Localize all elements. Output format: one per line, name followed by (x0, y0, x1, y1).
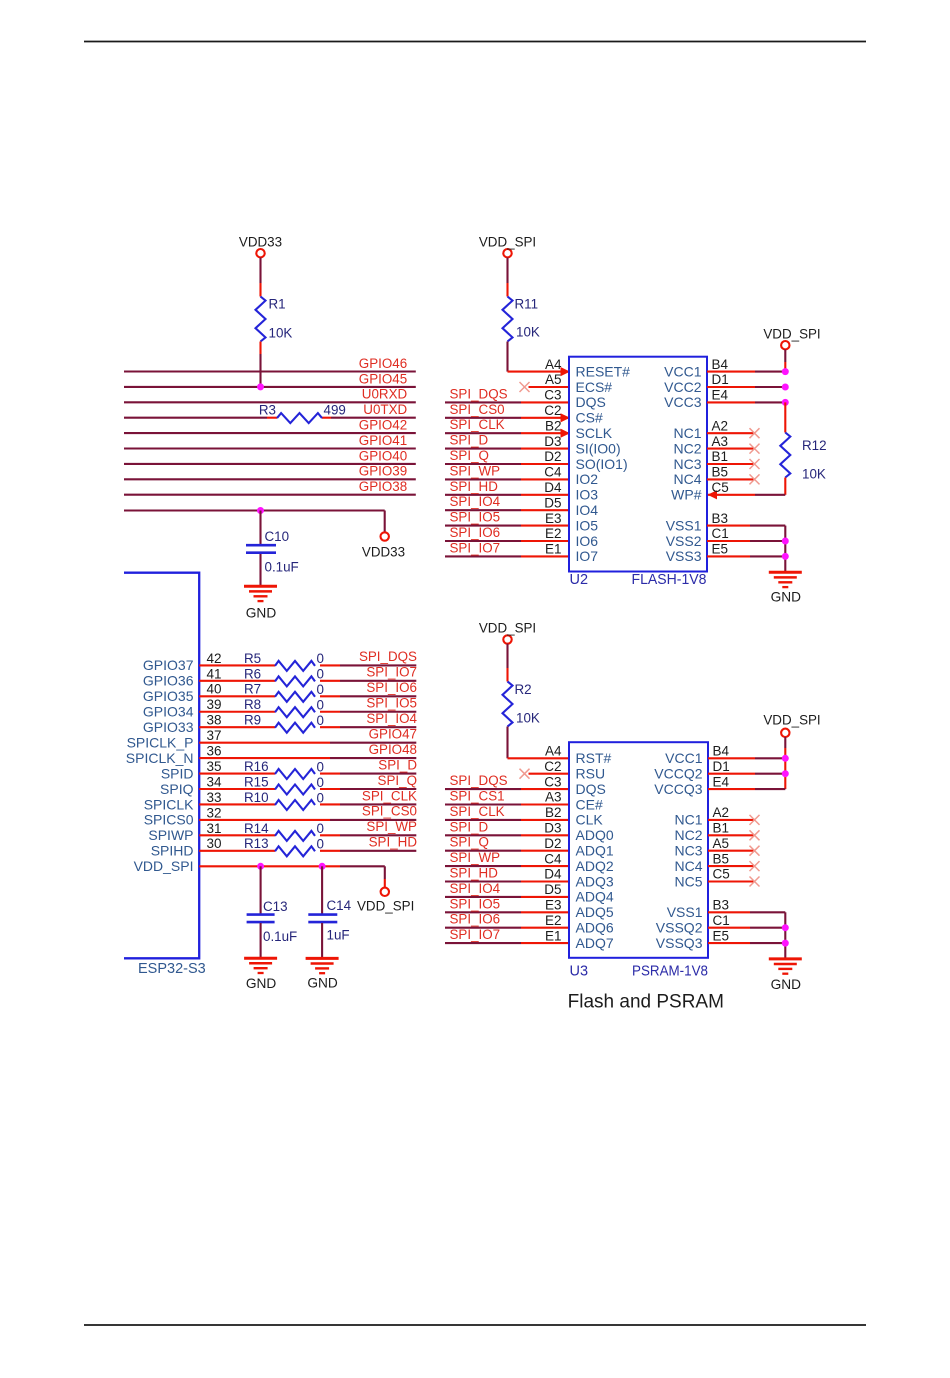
svg-text:SPI_DQS: SPI_DQS (450, 773, 508, 788)
svg-text:SPICLK: SPICLK (144, 796, 194, 812)
svg-text:VDD_SPI: VDD_SPI (134, 858, 194, 874)
svg-text:SPI_CS0: SPI_CS0 (450, 402, 505, 417)
wire pin E2 (ADQ6) (445, 927, 569, 929)
svg-text:D3: D3 (544, 434, 561, 449)
svg-text:SPI_D: SPI_D (450, 819, 489, 834)
svg-text:0: 0 (317, 775, 324, 790)
svg-text:ADQ7: ADQ7 (576, 935, 614, 951)
junction U3 VSSQ3 (782, 940, 789, 947)
svg-text:0: 0 (317, 790, 324, 805)
resistor R9 (244, 713, 324, 733)
svg-text:38: 38 (207, 713, 222, 728)
svg-text:C5: C5 (712, 480, 729, 495)
wire VCC pin B4 (708, 757, 785, 759)
svg-text:VCCQ3: VCCQ3 (654, 781, 702, 797)
no-connect X pin A2 (750, 815, 760, 825)
svg-text:R5: R5 (244, 651, 261, 666)
svg-text:VDD_SPI: VDD_SPI (763, 713, 820, 728)
wire GPIO38 (124, 494, 416, 496)
wire R2 to RST# (508, 727, 570, 759)
svg-text:D4: D4 (544, 867, 562, 882)
svg-text:E4: E4 (712, 388, 729, 403)
svg-text:GPIO34: GPIO34 (143, 704, 194, 720)
svg-text:SPI_IO4: SPI_IO4 (450, 494, 501, 509)
wire pin 35 to R16 (199, 772, 275, 774)
svg-text:0: 0 (317, 682, 324, 697)
svg-text:36: 36 (207, 744, 222, 759)
svg-text:U3: U3 (570, 964, 589, 980)
svg-text:B3: B3 (712, 511, 729, 526)
svg-text:VDD_SPI: VDD_SPI (479, 234, 536, 249)
svg-text:GPIO33: GPIO33 (143, 719, 194, 735)
svg-text:GPIO39: GPIO39 (359, 464, 407, 479)
wire pin C3 (DQS) (445, 401, 569, 403)
svg-text:SPI_CLK: SPI_CLK (362, 788, 417, 803)
no-connect X pin A5 (520, 382, 530, 392)
svg-text:D3: D3 (544, 821, 561, 836)
resistor R11 (503, 297, 540, 342)
wire VSS pin B3 (707, 525, 785, 527)
svg-text:SPI_WP: SPI_WP (450, 850, 501, 865)
wire pin D4 (IO3) (445, 494, 569, 496)
resistor R15 (244, 774, 324, 794)
arrow into RESET# pin A4 (561, 367, 571, 376)
wire VSS pin E5 (707, 555, 785, 557)
power VDD_SPI (U2 VCC) (763, 326, 820, 349)
svg-text:0.1uF: 0.1uF (265, 560, 299, 575)
wire pin 33 to R10 (199, 803, 275, 805)
junction U3 VCCQ2 (782, 770, 789, 777)
svg-text:B5: B5 (713, 851, 730, 866)
svg-text:SPI_IO5: SPI_IO5 (366, 696, 417, 711)
no-connect X pin A3 (750, 444, 760, 454)
IC U3 PSRAM-1V8 (569, 742, 708, 979)
wire pin E3 (ADQ5) (445, 911, 569, 913)
wire pin C2 (CS#) (445, 417, 569, 419)
wire R6 to SPI_IO7 (320, 680, 416, 682)
svg-text:R2: R2 (515, 682, 532, 697)
svg-text:35: 35 (207, 759, 222, 774)
svg-text:GND: GND (771, 590, 802, 605)
svg-text:SPICS0: SPICS0 (144, 812, 194, 828)
power VDD_SPI (R2) (479, 621, 536, 644)
svg-text:33: 33 (207, 790, 222, 805)
junction VSS3 (782, 553, 789, 560)
svg-text:E2: E2 (545, 526, 562, 541)
svg-text:SPI_IO4: SPI_IO4 (366, 711, 417, 726)
svg-text:B4: B4 (712, 357, 729, 372)
wire GPIO42 (124, 432, 416, 434)
no-connect X pin A2 (750, 428, 760, 438)
wire NC pin C5 (708, 880, 755, 882)
power VDD33 right (362, 532, 405, 559)
svg-text:CE#: CE# (576, 796, 603, 812)
svg-text:VCC1: VCC1 (665, 750, 703, 766)
svg-text:VCC1: VCC1 (664, 363, 702, 379)
resistor R6 (244, 666, 324, 686)
svg-text:R3: R3 (259, 403, 276, 418)
svg-text:U0RXD: U0RXD (362, 387, 408, 402)
wire pin E2 (IO6) (445, 540, 569, 542)
wire R8 to SPI_IO5 (320, 711, 416, 713)
wire pin B2 (CLK) (445, 819, 569, 821)
wire VDD_SPI down to VCC rail (784, 737, 786, 789)
svg-text:D4: D4 (544, 480, 562, 495)
svg-text:GPIO46: GPIO46 (359, 356, 407, 371)
capacitor C10 (246, 511, 299, 587)
wire R1 to GPIO45 net (259, 342, 261, 388)
svg-text:C4: C4 (544, 465, 562, 480)
wire pin 31 to R14 (199, 834, 275, 836)
svg-text:E1: E1 (545, 928, 562, 943)
wire pin 29 VDD_SPI rail (199, 866, 385, 887)
svg-text:R11: R11 (515, 297, 539, 312)
svg-text:RST#: RST# (576, 750, 612, 766)
svg-text:C14: C14 (327, 898, 352, 913)
wire pin 34 to R15 (199, 788, 275, 790)
arrow into SCLK pin B2 (561, 429, 571, 438)
wire GPIO40 (124, 463, 416, 465)
wire NC pin B1 (708, 834, 755, 836)
svg-text:31: 31 (207, 821, 222, 836)
wire VDD_SPI down to VCC rail (784, 349, 786, 371)
power VDD_SPI (R11) (479, 234, 536, 257)
svg-text:10K: 10K (516, 711, 540, 726)
svg-text:SPIHD: SPIHD (151, 843, 194, 859)
svg-text:GND: GND (307, 976, 338, 991)
svg-text:ADQ4: ADQ4 (576, 889, 614, 905)
svg-text:U0TXD: U0TXD (363, 402, 407, 417)
wire NC pin A2 (707, 432, 755, 434)
svg-text:D1: D1 (713, 759, 730, 774)
ground U3 VSS (769, 959, 802, 992)
wire VDD_SPI to R11 (506, 258, 508, 297)
svg-text:SPI_CS0: SPI_CS0 (362, 804, 417, 819)
svg-text:SPI_Q: SPI_Q (450, 448, 489, 463)
svg-text:VDD_SPI: VDD_SPI (357, 899, 414, 914)
wire R13 to SPI_HD (320, 850, 416, 852)
wire pin E1 (IO7) (445, 555, 569, 557)
svg-text:VCC2: VCC2 (664, 379, 702, 395)
svg-text:SPI_WP: SPI_WP (450, 463, 501, 478)
svg-text:E5: E5 (712, 542, 729, 557)
no-connect X pin C5 (750, 877, 760, 887)
svg-text:SPI_HD: SPI_HD (369, 835, 418, 850)
wire NC pin B5 (707, 478, 755, 480)
svg-text:GPIO35: GPIO35 (143, 688, 194, 704)
junction C13 tap (257, 863, 264, 870)
svg-text:C1: C1 (713, 913, 730, 928)
svg-text:NC2: NC2 (673, 440, 701, 456)
svg-text:B2: B2 (545, 805, 562, 820)
wire R15 to SPI_Q (320, 788, 416, 790)
wire pin 38 to R9 (199, 726, 275, 728)
svg-text:499: 499 (324, 403, 346, 418)
wire R12 to WP# (708, 478, 785, 495)
svg-text:B2: B2 (545, 418, 562, 433)
svg-text:1uF: 1uF (327, 927, 350, 942)
wire pin D4 (ADQ3) (445, 880, 569, 882)
svg-text:VSS1: VSS1 (667, 904, 703, 920)
wire VSS pin C1 (707, 540, 785, 542)
wire VCC rail to R12 (784, 402, 786, 432)
svg-text:ADQ6: ADQ6 (576, 920, 614, 936)
svg-text:C13: C13 (263, 899, 288, 914)
svg-text:SPI_CLK: SPI_CLK (450, 804, 505, 819)
svg-text:RESET#: RESET# (576, 363, 631, 379)
svg-text:C2: C2 (544, 759, 561, 774)
svg-text:A3: A3 (712, 434, 729, 449)
wire R16 to SPI_D (320, 772, 416, 774)
wire VDD_SPI to R2 (506, 644, 508, 682)
resistor R2 (503, 682, 540, 727)
svg-text:30: 30 (207, 836, 222, 851)
wire VCC pin D1 (708, 773, 785, 775)
svg-text:GND: GND (246, 976, 277, 991)
resistor R7 (244, 682, 324, 702)
svg-text:ADQ0: ADQ0 (576, 827, 614, 843)
wire pin 37 (GPIO47) (199, 742, 416, 744)
svg-text:SPI_Q: SPI_Q (378, 773, 417, 788)
wire VSS rail to ground (784, 526, 786, 573)
svg-text:WP#: WP# (671, 487, 702, 503)
svg-text:CLK: CLK (576, 812, 604, 828)
ground C13 (244, 958, 277, 991)
svg-text:ECS#: ECS# (576, 379, 613, 395)
svg-text:10K: 10K (802, 467, 826, 482)
svg-text:SPI_D: SPI_D (450, 433, 489, 448)
svg-text:SPI_DQS: SPI_DQS (450, 386, 508, 401)
svg-text:VCC3: VCC3 (664, 394, 702, 410)
svg-text:SPI_IO5: SPI_IO5 (450, 510, 501, 525)
svg-text:GPIO37: GPIO37 (143, 657, 194, 673)
svg-text:NC1: NC1 (674, 812, 702, 828)
svg-text:SPI_Q: SPI_Q (450, 835, 489, 850)
svg-text:NC2: NC2 (674, 827, 702, 843)
svg-text:PSRAM-1V8: PSRAM-1V8 (632, 964, 708, 980)
wire R11 to RESET# (508, 342, 570, 372)
IC U2 FLASH-1V8 (569, 357, 707, 588)
junction VCC1 (782, 368, 789, 375)
wire pin 36 (GPIO48) (199, 757, 416, 759)
svg-text:ESP32-S3: ESP32-S3 (138, 961, 206, 977)
svg-text:GND: GND (246, 606, 277, 621)
svg-text:GPIO48: GPIO48 (369, 742, 417, 757)
wire pin D5 (ADQ4) (445, 896, 569, 898)
svg-text:E1: E1 (545, 542, 562, 557)
svg-text:E3: E3 (545, 511, 562, 526)
wire NC pin B1 (707, 463, 755, 465)
svg-text:E2: E2 (545, 913, 562, 928)
no-connect X pin A5 (750, 846, 760, 856)
svg-text:SPI_CS1: SPI_CS1 (450, 789, 505, 804)
svg-text:SCLK: SCLK (576, 425, 613, 441)
wire pin 41 to R6 (199, 680, 275, 682)
wire NC pin A3 (707, 448, 755, 450)
wire pin D2 (SO(IO1)) (445, 463, 569, 465)
resistor R10 (244, 790, 324, 810)
junction C14 tap (319, 863, 326, 870)
svg-text:D5: D5 (544, 495, 561, 510)
svg-text:A5: A5 (713, 836, 730, 851)
junction VSS2 (782, 538, 789, 545)
svg-text:0: 0 (317, 837, 324, 852)
svg-text:GPIO47: GPIO47 (369, 726, 417, 741)
svg-text:A4: A4 (545, 357, 562, 372)
svg-text:SPI_IO7: SPI_IO7 (366, 665, 417, 680)
resistor R1 (256, 297, 293, 342)
wire pin B2 (SCLK) (445, 432, 569, 434)
svg-text:0: 0 (317, 667, 324, 682)
svg-text:R7: R7 (244, 682, 261, 697)
svg-text:C3: C3 (544, 774, 561, 789)
wire pin C4 (ADQ2) (445, 865, 569, 867)
svg-text:R10: R10 (244, 790, 269, 805)
ground U2 VSS (769, 572, 802, 604)
svg-text:SPI_D: SPI_D (378, 757, 417, 772)
svg-text:ADQ1: ADQ1 (576, 843, 614, 859)
svg-text:GND: GND (771, 977, 802, 992)
svg-text:B5: B5 (712, 465, 729, 480)
wire R9 to SPI_IO4 (320, 726, 416, 728)
svg-text:0: 0 (317, 759, 324, 774)
svg-text:R13: R13 (244, 836, 269, 851)
svg-text:GPIO45: GPIO45 (359, 371, 407, 386)
svg-text:SPI_HD: SPI_HD (450, 479, 499, 494)
svg-text:SPI_DQS: SPI_DQS (359, 649, 417, 664)
svg-text:SPI_IO7: SPI_IO7 (450, 540, 501, 555)
wire pin A3 (CE#) (445, 803, 569, 805)
svg-text:C5: C5 (713, 867, 730, 882)
junction VCC2 (782, 384, 789, 391)
svg-text:VSSQ2: VSSQ2 (656, 920, 703, 936)
svg-text:E3: E3 (545, 898, 562, 913)
svg-text:NC5: NC5 (674, 873, 702, 889)
svg-text:SPICLK_P: SPICLK_P (127, 734, 194, 750)
wire pin D5 (IO4) (445, 509, 569, 511)
wire pin 40 to R7 (199, 695, 275, 697)
svg-text:C3: C3 (544, 388, 561, 403)
svg-text:C2: C2 (544, 403, 561, 418)
svg-text:SPIWP: SPIWP (148, 827, 193, 843)
resistor R16 (244, 759, 324, 779)
resistor R8 (244, 697, 324, 717)
svg-text:ADQ5: ADQ5 (576, 904, 614, 920)
resistor R5 (244, 651, 324, 671)
svg-text:A4: A4 (545, 744, 562, 759)
svg-text:VSS3: VSS3 (666, 548, 702, 564)
svg-text:37: 37 (207, 728, 222, 743)
no-connect X pin C2 (520, 769, 530, 779)
svg-text:VDD33: VDD33 (362, 545, 405, 560)
wire GPIO45 (124, 386, 416, 388)
svg-text:34: 34 (207, 774, 223, 789)
capacitor C14 (308, 866, 351, 958)
resistor R14 (244, 821, 324, 841)
svg-text:R9: R9 (244, 713, 261, 728)
no-connect X pin B5 (750, 861, 760, 871)
wire VDD33 to R1 (259, 258, 261, 297)
wire VCC pin B4 (707, 371, 785, 373)
wire NC pin B5 (708, 865, 755, 867)
svg-text:SPI_WP: SPI_WP (366, 819, 417, 834)
wire VSS pin E5 (708, 942, 785, 944)
wire R5 to SPI_DQS (320, 664, 416, 666)
svg-text:IO2: IO2 (576, 471, 599, 487)
wire pin C4 (IO2) (445, 478, 569, 480)
svg-text:VSSQ3: VSSQ3 (656, 935, 703, 951)
svg-text:ADQ3: ADQ3 (576, 873, 614, 889)
svg-text:SPI_IO4: SPI_IO4 (450, 881, 501, 896)
wire pin 42 to R5 (199, 664, 275, 666)
svg-text:39: 39 (207, 697, 222, 712)
svg-text:VCCQ2: VCCQ2 (654, 766, 702, 782)
svg-text:42: 42 (207, 651, 222, 666)
svg-text:0: 0 (317, 651, 324, 666)
wire pin 32 (SPI_CS0) (199, 819, 416, 821)
svg-text:R1: R1 (269, 297, 286, 312)
svg-text:DQS: DQS (576, 394, 606, 410)
svg-text:IO4: IO4 (576, 502, 599, 518)
svg-text:A2: A2 (712, 418, 729, 433)
wire VCC pin D1 (707, 386, 785, 388)
svg-text:D2: D2 (544, 449, 561, 464)
power VDD_SPI (pin29) (357, 888, 414, 914)
svg-text:A3: A3 (545, 790, 562, 805)
wire U0TXD (124, 417, 416, 419)
svg-text:SPI_IO7: SPI_IO7 (450, 927, 501, 942)
no-connect X pin B1 (750, 830, 760, 840)
svg-text:SPI_IO6: SPI_IO6 (366, 680, 417, 695)
junction U3 VCC1 (782, 755, 789, 762)
svg-text:R12: R12 (802, 438, 827, 453)
wire VSS pin B3 (708, 911, 785, 913)
svg-text:FLASH-1V8: FLASH-1V8 (632, 572, 707, 588)
svg-text:R15: R15 (244, 774, 269, 789)
wire GPIO39 (124, 478, 416, 480)
svg-text:E4: E4 (713, 774, 730, 789)
resistor R13 (244, 836, 324, 856)
wire pin C3 (DQS) (445, 788, 569, 790)
svg-text:0: 0 (317, 698, 324, 713)
svg-text:NC4: NC4 (674, 858, 702, 874)
wire U3 VSS rail to ground (784, 912, 786, 959)
svg-text:NC3: NC3 (673, 456, 701, 472)
svg-text:SO(IO1): SO(IO1) (576, 456, 628, 472)
svg-text:NC3: NC3 (674, 843, 702, 859)
svg-text:40: 40 (207, 682, 222, 697)
wire R14 to SPI_WP (320, 834, 416, 836)
wire NC pin A2 (708, 819, 755, 821)
arrow into WP# pin C5 (708, 490, 718, 499)
resistor R3 (259, 403, 346, 424)
ground C10 (244, 586, 277, 620)
wire pin 30 to R13 (199, 850, 275, 852)
wire pin E1 (ADQ7) (445, 942, 569, 944)
svg-text:R16: R16 (244, 759, 269, 774)
svg-text:GPIO41: GPIO41 (359, 433, 407, 448)
svg-text:IO5: IO5 (576, 517, 599, 533)
svg-text:B4: B4 (713, 744, 730, 759)
svg-text:VDD_SPI: VDD_SPI (479, 621, 536, 636)
svg-text:10K: 10K (269, 326, 293, 341)
wire pin D3 (SI(IO0)) (445, 448, 569, 450)
svg-text:R8: R8 (244, 697, 261, 712)
svg-text:VSS1: VSS1 (666, 517, 702, 533)
svg-text:D1: D1 (712, 372, 729, 387)
svg-text:A2: A2 (713, 805, 730, 820)
svg-text:IO3: IO3 (576, 487, 599, 503)
